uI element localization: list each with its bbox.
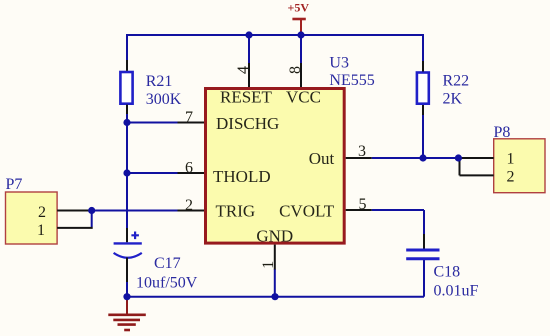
svg-text:2K: 2K <box>443 91 463 108</box>
svg-text:8: 8 <box>287 66 304 74</box>
ground symbol <box>108 298 146 330</box>
capacitor C17 plus sign <box>131 232 139 240</box>
resistor R21 body <box>120 72 132 104</box>
svg-text:1: 1 <box>37 222 45 239</box>
svg-text:3: 3 <box>358 143 366 160</box>
P8 pin 2 riser <box>459 158 461 175</box>
node junction top at pin 8 column <box>297 31 304 38</box>
svg-text:VCC: VCC <box>286 88 321 107</box>
wire R22 column upper (top bus to R22) <box>422 34 424 61</box>
svg-text:10uf/50V: 10uf/50V <box>136 275 198 292</box>
capacitor C17 top plate <box>114 242 142 244</box>
svg-text:5: 5 <box>359 196 367 213</box>
wire left column R21 to DISCHG junction <box>126 114 128 123</box>
P7 pin 2 stub <box>57 210 92 212</box>
pin 7 DISCHG stub <box>178 122 205 124</box>
wire THOLD branch <box>127 172 178 174</box>
svg-text:6: 6 <box>185 160 193 177</box>
resistor R21 bottom pin stub <box>126 105 128 114</box>
wire top horizontal bus <box>127 34 424 36</box>
wire C17 bottom to ground junction <box>126 282 128 297</box>
pin 2 TRIG stub <box>178 210 205 212</box>
wire Out horizontal <box>372 157 459 159</box>
wire GND pin to bottom bus <box>274 269 276 297</box>
node junction ground <box>123 293 130 300</box>
svg-text:0.01uF: 0.01uF <box>434 283 479 300</box>
node junction top at pin 4 column <box>245 31 252 38</box>
wire CVOLT horizontal <box>372 209 424 211</box>
capacitor C17 top pin stub <box>126 228 128 242</box>
svg-text:R21: R21 <box>146 73 173 90</box>
P8 pin 1 stub <box>458 157 493 159</box>
resistor R22 body <box>417 73 429 104</box>
node junction GND pin to bottom bus <box>271 293 278 300</box>
svg-text:300K: 300K <box>146 91 182 108</box>
svg-text:U3: U3 <box>329 55 349 72</box>
wire left column DISCHG junction to THOLD junction <box>126 123 128 174</box>
wire CVOLT down to C18 <box>423 210 425 234</box>
connector P7 body <box>6 192 58 244</box>
pin 5 CVOLT stub <box>346 209 372 211</box>
wire TRIG horizontal <box>92 210 178 212</box>
svg-text:2: 2 <box>38 204 46 221</box>
wire left column upper (top bus to R21) <box>126 34 128 60</box>
pin 6 THOLD stub <box>178 172 205 174</box>
wire pin 4 column <box>248 34 250 63</box>
capacitor C18 bottom plate <box>406 257 439 260</box>
resistor R22 top pin stub <box>422 61 424 72</box>
op-amp U3 NE555 body <box>206 89 345 244</box>
resistor R21 top pin stub <box>126 60 128 71</box>
svg-text:+5V: +5V <box>288 1 310 15</box>
wire bottom horizontal bus <box>127 296 424 298</box>
svg-text:C18: C18 <box>434 264 461 281</box>
svg-text:C17: C17 <box>154 255 181 272</box>
svg-text:4: 4 <box>235 66 252 74</box>
wire P7 riser <box>91 211 93 228</box>
svg-text:1: 1 <box>507 151 515 168</box>
wire DISCHG branch <box>127 122 178 124</box>
svg-text:P7: P7 <box>6 176 23 193</box>
node junction P7 branch <box>88 207 95 214</box>
svg-text:CVOLT: CVOLT <box>279 202 335 221</box>
+5V stub down to bus <box>300 19 302 35</box>
svg-text:TRIG: TRIG <box>216 202 256 221</box>
node junction THOLD branch <box>123 169 130 176</box>
svg-text:NE555: NE555 <box>329 72 374 89</box>
node junction P8 branch <box>455 154 462 161</box>
pin 8 VCC stub <box>300 63 302 87</box>
capacitor C17 bottom pin stub <box>126 258 128 283</box>
capacitor C18 top plate <box>406 249 439 252</box>
connector P8 body <box>494 139 545 193</box>
+5V bar <box>292 18 305 21</box>
svg-text:Out: Out <box>309 149 335 168</box>
svg-text:RESET: RESET <box>220 88 273 107</box>
svg-text:P8: P8 <box>494 124 511 141</box>
svg-text:GND: GND <box>256 227 293 246</box>
pin 3 Out stub <box>346 157 372 159</box>
capacitor C18 top pin stub <box>423 234 425 249</box>
svg-text:1: 1 <box>260 261 277 269</box>
svg-text:2: 2 <box>507 169 515 186</box>
pin 1 GND stub <box>274 245 276 270</box>
capacitor C17 bottom curved plate <box>114 253 142 258</box>
svg-text:7: 7 <box>185 109 193 126</box>
svg-text:2: 2 <box>185 197 193 214</box>
node junction R22 to Out <box>419 154 426 161</box>
P7 pin 1 stub <box>57 227 93 229</box>
wire left column THOLD junction down to C17 <box>126 173 128 228</box>
wire R22 column lower (R22 to Out junction) <box>422 115 424 158</box>
wire pin 8 column <box>300 34 302 63</box>
svg-text:DISCHG: DISCHG <box>216 114 279 133</box>
svg-text:R22: R22 <box>443 73 470 90</box>
node junction DISCHG branch <box>123 119 130 126</box>
P8 pin 2 stub <box>460 174 494 176</box>
pin 4 RESET stub <box>248 63 250 87</box>
svg-text:THOLD: THOLD <box>213 167 271 186</box>
resistor R22 bottom pin stub <box>422 105 424 115</box>
wire C18 bottom to bottom bus <box>423 260 425 297</box>
